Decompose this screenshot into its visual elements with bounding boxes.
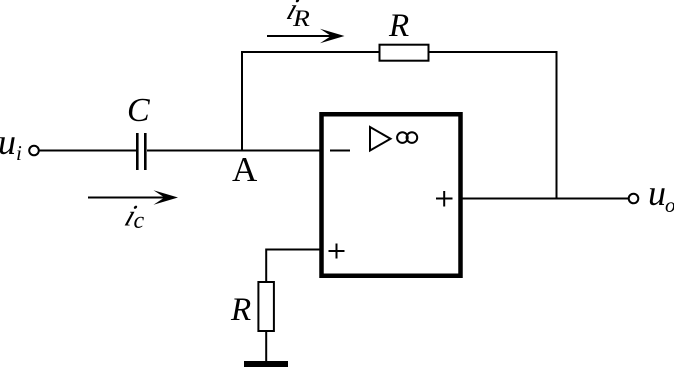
svg-text:R: R: [292, 6, 310, 31]
svg-text:A: A: [232, 150, 258, 189]
svg-text:R: R: [388, 8, 409, 44]
svg-text:i: i: [16, 141, 22, 165]
svg-text:c: c: [134, 208, 145, 234]
svg-text:C: C: [127, 92, 150, 129]
svg-text:u: u: [0, 122, 16, 162]
svg-text:R: R: [230, 292, 251, 328]
svg-text:o: o: [665, 193, 674, 217]
svg-text:u: u: [648, 173, 666, 213]
